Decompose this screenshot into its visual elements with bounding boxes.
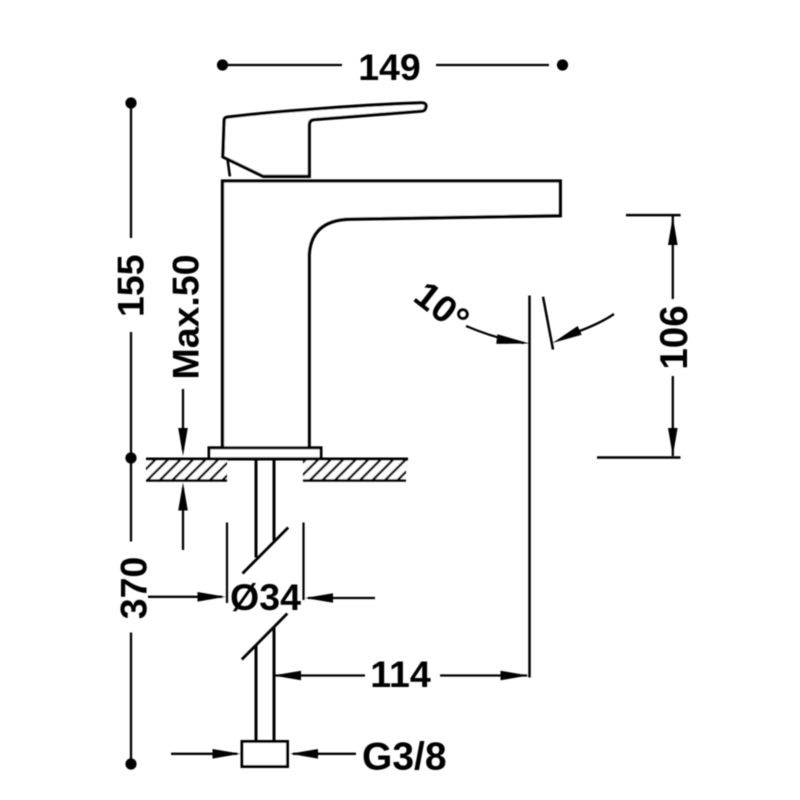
- svg-text:149: 149: [358, 46, 421, 88]
- svg-text:Max.50: Max.50: [165, 254, 207, 379]
- svg-text:155: 155: [110, 254, 152, 317]
- svg-text:G3/8: G3/8: [362, 736, 447, 779]
- svg-text:Ø34: Ø34: [230, 576, 301, 618]
- svg-text:370: 370: [113, 557, 155, 620]
- svg-text:114: 114: [370, 653, 431, 695]
- svg-text:106: 106: [653, 305, 696, 369]
